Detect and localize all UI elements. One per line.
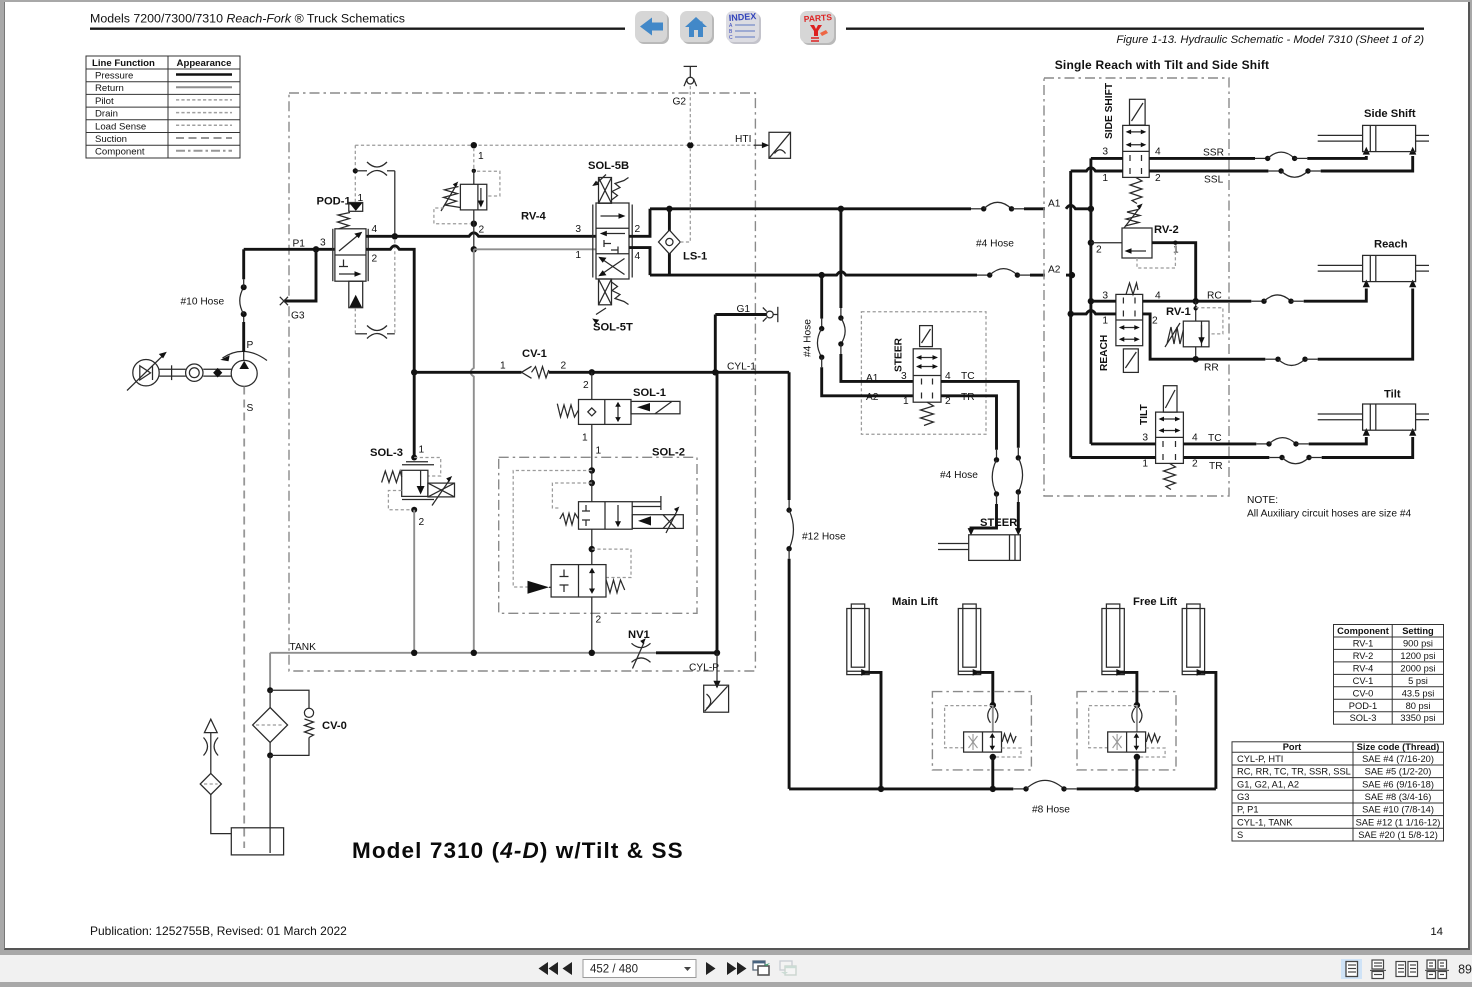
svg-text:3: 3 <box>320 238 326 249</box>
lift supply rail <box>789 780 1216 792</box>
svg-text:Appearance: Appearance <box>177 58 232 69</box>
legend table text <box>92 58 231 158</box>
POD-1 pilot line upper with orifice <box>353 145 395 236</box>
svg-text:NV1: NV1 <box>628 629 650 641</box>
svg-text:2: 2 <box>1152 316 1158 327</box>
svg-text:2000 psi: 2000 psi <box>1400 663 1435 673</box>
lift cylinder 2 <box>958 604 993 705</box>
svg-text:5 psi: 5 psi <box>1408 676 1428 686</box>
steer TR line <box>941 392 999 536</box>
main lift lowering valve <box>945 702 1021 789</box>
svg-text:RV-4: RV-4 <box>1353 663 1374 673</box>
SOL-2 lower valve <box>528 529 632 653</box>
svg-text:RV-1: RV-1 <box>1166 306 1191 318</box>
svg-text:SSL: SSL <box>1204 175 1224 186</box>
tilt port3 line <box>1091 442 1156 445</box>
svg-text:CV-1: CV-1 <box>1353 676 1374 686</box>
return line SOL-5 port1 <box>471 246 596 252</box>
legend drain sample <box>176 112 232 114</box>
svg-text:Side Shift: Side Shift <box>1364 108 1416 120</box>
tilt valve <box>1156 386 1184 490</box>
svg-text:CYL-1, TANK: CYL-1, TANK <box>1237 817 1293 827</box>
steer valve <box>866 326 951 426</box>
side shift port3 line <box>1091 157 1123 160</box>
home button <box>680 11 714 44</box>
component setting table text <box>1337 626 1435 723</box>
lift cylinder 1 <box>847 604 881 789</box>
svg-text:TC: TC <box>1208 433 1222 444</box>
svg-text:#12 Hose: #12 Hose <box>802 532 846 543</box>
svg-text:SAE #6 (9/16-18): SAE #6 (9/16-18) <box>1362 779 1434 789</box>
svg-text:A2: A2 <box>866 392 879 403</box>
svg-text:Line Function: Line Function <box>92 58 155 69</box>
pump shaft <box>203 368 231 378</box>
note text <box>1247 495 1412 520</box>
svg-text:Pressure: Pressure <box>95 71 133 82</box>
free lift label <box>1133 596 1177 608</box>
svg-text:SIDE SHIFT: SIDE SHIFT <box>1104 82 1115 139</box>
RC line <box>1143 280 1370 305</box>
hose label 4b <box>803 319 814 357</box>
two page layout icon <box>1396 962 1418 977</box>
svg-text:Return: Return <box>95 83 124 94</box>
svg-text:Tilt: Tilt <box>1384 389 1401 401</box>
svg-text:4: 4 <box>1155 147 1161 158</box>
steer A1 drop hose <box>838 209 913 382</box>
svg-text:S: S <box>247 403 254 414</box>
port size table text <box>1237 742 1440 840</box>
port labels POD-1 <box>372 224 378 265</box>
side shift valve <box>1123 99 1150 203</box>
svg-text:89: 89 <box>1458 963 1472 977</box>
auxiliary boundary box <box>1044 78 1229 496</box>
svg-text:Port: Port <box>1283 742 1302 752</box>
svg-text:1: 1 <box>1102 316 1108 327</box>
svg-text:SAE #8 (3/4-16): SAE #8 (3/4-16) <box>1365 792 1432 802</box>
svg-text:All Auxiliary circuit hoses: All Auxiliary circuit hoses are size #4 <box>1247 509 1412 520</box>
RV-2 relief valve <box>1091 204 1196 302</box>
header rule left <box>90 28 625 30</box>
next view icon (disabled) <box>780 961 796 975</box>
first page button <box>539 962 559 975</box>
SOL-5T label <box>593 322 633 334</box>
svg-text:Drain: Drain <box>95 109 118 120</box>
side shift port1 line <box>1071 168 1123 171</box>
svg-text:SOL-5B: SOL-5B <box>588 160 629 172</box>
two page continuous icon <box>1425 960 1449 979</box>
svg-text:P1: P1 <box>293 239 306 250</box>
svg-text:Models 7200/7300/7310 Reach-Fo: Models 7200/7300/7310 Reach-Fork ® Truck… <box>90 12 405 26</box>
legend return sample <box>176 86 232 88</box>
svg-text:3: 3 <box>575 224 581 235</box>
svg-text:POD-1: POD-1 <box>317 196 351 208</box>
svg-text:43.5 psi: 43.5 psi <box>1402 688 1435 698</box>
hose label 8 <box>1032 805 1070 816</box>
svg-text:1: 1 <box>1142 459 1148 470</box>
svg-text:REACH: REACH <box>1099 335 1110 371</box>
svg-text:2: 2 <box>372 254 378 265</box>
port size table <box>1232 742 1444 841</box>
POD-1 label <box>317 193 364 208</box>
svg-text:3: 3 <box>1102 147 1108 158</box>
last page button <box>727 962 747 975</box>
A2 label <box>1048 265 1061 276</box>
svg-text:1: 1 <box>1102 173 1108 184</box>
SOL-5 port labels <box>575 224 640 262</box>
SOL-5 port4 drop to A2 <box>629 248 650 276</box>
hose label 10 <box>181 297 225 308</box>
P1 pressure line <box>244 246 335 252</box>
SOL-5 spool valve <box>592 175 632 324</box>
page number <box>1430 926 1443 938</box>
SOL-3 valve <box>370 372 455 653</box>
svg-text:4: 4 <box>635 251 641 262</box>
legend suction sample <box>176 137 232 139</box>
svg-text:RR: RR <box>1204 363 1219 374</box>
A1 label <box>1048 199 1061 210</box>
svg-text:RV-2: RV-2 <box>1353 651 1374 661</box>
svg-text:P, P1: P, P1 <box>1237 805 1259 815</box>
document title <box>90 12 405 26</box>
SOL-2 upper valve <box>513 467 683 587</box>
legend component sample <box>176 150 232 152</box>
POD-1 port2 line to manifold <box>366 246 414 372</box>
side shift cylinder <box>1318 108 1429 152</box>
svg-text:2: 2 <box>561 361 567 372</box>
svg-text:Suction: Suction <box>95 134 127 145</box>
svg-text:A1: A1 <box>866 373 879 384</box>
svg-text:14: 14 <box>1430 926 1443 938</box>
legend load sense sample <box>176 124 232 126</box>
G2 test port <box>673 66 698 143</box>
SOL-1 valve <box>557 372 680 470</box>
SOL-2 label <box>596 446 685 459</box>
HTI output <box>735 132 791 158</box>
svg-text:1: 1 <box>582 433 588 444</box>
electric motor M <box>127 352 167 391</box>
lift cylinder 4 <box>1182 604 1216 789</box>
tilt port1 line <box>1071 456 1156 459</box>
svg-text:1200 psi: 1200 psi <box>1400 651 1435 661</box>
vertical A2 return rail <box>1069 171 1072 458</box>
svg-text:Load Sense: Load Sense <box>95 121 146 132</box>
svg-text:#4 Hose: #4 Hose <box>803 319 814 357</box>
model title <box>352 838 684 863</box>
svg-text:LS-1: LS-1 <box>683 251 707 263</box>
svg-text:2: 2 <box>1096 245 1102 256</box>
svg-text:Setting: Setting <box>1402 626 1434 636</box>
svg-text:Figure 1-13. Hydraulic Schema: Figure 1-13. Hydraulic Schematic - Model… <box>1116 34 1424 46</box>
svg-text:Publication: 1252755B, Revised: Publication: 1252755B, Revised: 01 March… <box>90 924 347 938</box>
svg-text:RV-4: RV-4 <box>521 211 546 223</box>
svg-text:Component: Component <box>1337 626 1389 636</box>
vertical pressure rail <box>1088 158 1094 444</box>
SSR line <box>1149 147 1370 161</box>
svg-text:#4 Hose: #4 Hose <box>940 470 978 481</box>
svg-text:SOL-3: SOL-3 <box>1350 713 1377 723</box>
A1 line <box>650 202 1094 212</box>
A2 line <box>650 269 1075 279</box>
svg-text:1: 1 <box>575 250 581 261</box>
svg-text:C: C <box>729 35 733 41</box>
svg-text:4: 4 <box>1192 433 1198 444</box>
reach valve <box>1116 283 1143 372</box>
svg-text:SOL-5T: SOL-5T <box>593 322 633 334</box>
LS-1 shuttle valve <box>659 209 708 275</box>
svg-text:1: 1 <box>903 396 909 407</box>
svg-text:TR: TR <box>961 392 975 403</box>
port S label <box>247 403 254 414</box>
reach port labels <box>1102 291 1161 327</box>
zoom percent <box>1458 963 1472 977</box>
back button <box>635 11 669 44</box>
svg-text:SOL-1: SOL-1 <box>633 387 666 399</box>
svg-text:S: S <box>1237 830 1243 840</box>
pressure line pump to P1 with hose <box>240 249 247 360</box>
svg-text:2: 2 <box>583 380 589 391</box>
figure caption <box>1116 34 1424 46</box>
P1 label <box>293 238 327 250</box>
REACH label rotated <box>1099 335 1110 371</box>
svg-text:Main Lift: Main Lift <box>892 596 938 608</box>
main lift label <box>892 596 938 608</box>
POD-1 valve <box>333 203 368 308</box>
previous view icon <box>753 961 770 975</box>
svg-text:PARTS: PARTS <box>803 12 832 24</box>
svg-text:A1: A1 <box>1048 199 1061 210</box>
svg-text:TR: TR <box>1209 461 1223 472</box>
steer A2 drop hose <box>817 275 913 396</box>
svg-text:A2: A2 <box>1048 265 1061 276</box>
port P label <box>247 340 254 351</box>
steer TC line <box>941 371 1023 536</box>
legend pressure sample <box>176 73 232 76</box>
svg-text:SOL-2: SOL-2 <box>652 447 685 459</box>
main pressure line POD-1 to SOL-5 <box>366 233 596 236</box>
svg-text:Single Reach with Tilt and: Single Reach with Tilt and Side Shift <box>1055 58 1270 72</box>
svg-text:INDEX: INDEX <box>728 11 756 23</box>
G1 test port <box>715 304 778 372</box>
SOL-5 port2 riser to A1 <box>629 209 650 237</box>
svg-text:2: 2 <box>1192 459 1198 470</box>
svg-text:3: 3 <box>1142 433 1148 444</box>
svg-text:4: 4 <box>372 224 378 235</box>
manifold component boundary box <box>289 93 755 671</box>
tilt port labels <box>1142 433 1198 470</box>
svg-text:SAE #20 (1 5/8-12): SAE #20 (1 5/8-12) <box>1358 830 1438 840</box>
svg-text:RV-1: RV-1 <box>1353 638 1374 648</box>
LS-1 pilot to HTI rail <box>680 148 690 242</box>
svg-text:80 psi: 80 psi <box>1406 701 1431 711</box>
hose label 4a <box>976 239 1014 250</box>
svg-text:Component: Component <box>95 147 145 158</box>
TR line <box>1183 428 1416 472</box>
lift cylinder 3 <box>1102 604 1137 705</box>
publication footer <box>90 924 347 938</box>
svg-text:Pilot: Pilot <box>95 96 114 107</box>
RV-4 relief valve <box>434 148 547 249</box>
svg-text:2: 2 <box>419 517 425 528</box>
svg-text:SSR: SSR <box>1203 148 1224 159</box>
hose line 12 down <box>786 372 846 789</box>
tank return rail <box>270 642 656 656</box>
TILT label rotated <box>1139 403 1150 425</box>
previous page button <box>563 962 573 975</box>
svg-text:CV-0: CV-0 <box>322 720 347 732</box>
header rule right <box>846 28 1424 30</box>
TC line <box>1183 428 1370 447</box>
svg-text:Free Lift: Free Lift <box>1133 596 1177 608</box>
CYL-P outlet <box>689 372 729 712</box>
svg-text:SAE #10 (7/8-14): SAE #10 (7/8-14) <box>1362 805 1434 815</box>
SSL line <box>1149 147 1416 186</box>
CV-0 check valve <box>270 690 347 755</box>
NV1 needle valve <box>628 629 720 669</box>
svg-text:CYL-1: CYL-1 <box>727 361 756 372</box>
svg-text:#10 Hose: #10 Hose <box>181 297 225 308</box>
legend pilot sample <box>176 99 232 101</box>
svg-text:RC, RR, TC, TR, SSR, SSL: RC, RR, TC, TR, SSR, SSL <box>1237 767 1351 777</box>
svg-text:POD-1: POD-1 <box>1349 701 1377 711</box>
svg-text:3: 3 <box>901 371 907 382</box>
svg-text:1: 1 <box>500 361 506 372</box>
page number box <box>583 960 696 978</box>
svg-text:#8 Hose: #8 Hose <box>1032 805 1070 816</box>
svg-text:Size code (Thread): Size code (Thread) <box>1357 742 1440 752</box>
svg-text:RC: RC <box>1207 291 1222 302</box>
G3 test port <box>280 249 316 321</box>
main lift lowering valve box <box>932 692 1031 770</box>
svg-text:Reach: Reach <box>1374 239 1408 251</box>
continuous layout icon <box>1370 960 1386 979</box>
return drop to tank <box>471 249 474 653</box>
svg-text:STEER: STEER <box>894 337 905 372</box>
svg-text:CYL-P, HTI: CYL-P, HTI <box>1237 754 1283 764</box>
svg-text:3350 psi: 3350 psi <box>1400 713 1435 723</box>
reservoir tank <box>231 828 283 855</box>
suction line <box>243 387 245 849</box>
svg-text:#4 Hose: #4 Hose <box>976 239 1014 250</box>
svg-text:TC: TC <box>961 371 975 382</box>
svg-text:STEER: STEER <box>980 517 1017 529</box>
RV-1 relief valve <box>1165 301 1223 359</box>
svg-text:TILT: TILT <box>1139 403 1150 425</box>
svg-text:CV-0: CV-0 <box>1353 688 1374 698</box>
svg-text:P: P <box>247 340 254 351</box>
svg-text:2: 2 <box>945 396 951 407</box>
svg-text:G3: G3 <box>1237 792 1249 802</box>
svg-text:1: 1 <box>478 151 484 162</box>
breather <box>200 719 231 833</box>
steer boundary box <box>861 312 986 434</box>
svg-text:SAE #12 (1 1/16-12): SAE #12 (1 1/16-12) <box>1356 817 1441 827</box>
tilt cylinder <box>1318 389 1429 431</box>
svg-text:CYL-P: CYL-P <box>689 663 719 674</box>
component setting table <box>1334 625 1444 725</box>
parts button <box>800 11 836 45</box>
SOL-2 boundary box <box>499 457 697 613</box>
reach cylinder <box>1318 239 1429 282</box>
single page layout icon (active) <box>1341 959 1362 979</box>
section heading <box>1055 58 1270 72</box>
RR line <box>1143 280 1417 374</box>
index button <box>726 11 761 44</box>
svg-text:2: 2 <box>596 615 602 626</box>
svg-text:G2: G2 <box>673 97 687 108</box>
svg-text:G1, G2, A1, A2: G1, G2, A1, A2 <box>1237 779 1299 789</box>
svg-text:Model 7310 (4-D) w/Tilt & SS: Model 7310 (4-D) w/Tilt & SS <box>352 838 684 863</box>
svg-text:452 / 480: 452 / 480 <box>590 964 638 976</box>
next page button <box>706 962 716 975</box>
svg-text:2: 2 <box>479 225 485 236</box>
pilot rail line <box>355 142 758 148</box>
svg-text:2: 2 <box>1155 173 1161 184</box>
svg-text:RV-2: RV-2 <box>1154 224 1179 236</box>
SOL-5B label <box>588 160 629 172</box>
svg-text:1: 1 <box>596 446 602 457</box>
side shift label rotated <box>1104 82 1115 139</box>
svg-text:SOL-3: SOL-3 <box>370 447 403 459</box>
svg-text:SAE #4 (7/16-20): SAE #4 (7/16-20) <box>1362 754 1434 764</box>
free lift lowering valve <box>1089 702 1165 789</box>
reach port3 line <box>1091 300 1116 303</box>
free lift lowering valve box <box>1077 692 1176 770</box>
side shift port labels <box>1102 147 1161 185</box>
svg-text:CV-1: CV-1 <box>522 348 547 360</box>
svg-text:HTI: HTI <box>735 134 751 145</box>
svg-text:900 psi: 900 psi <box>1403 638 1433 648</box>
junction main line <box>392 233 398 239</box>
return filter <box>253 653 288 853</box>
svg-text:SAE #5 (1/2-20): SAE #5 (1/2-20) <box>1365 767 1432 777</box>
CYL-1 line with CV-1 <box>411 348 789 378</box>
svg-text:TANK: TANK <box>290 642 317 653</box>
legend table frame <box>86 56 240 158</box>
svg-text:G3: G3 <box>291 311 305 322</box>
POD-1 pilot line lower with orifice <box>355 240 395 339</box>
svg-text:2: 2 <box>635 224 641 235</box>
hose label 4c <box>940 470 978 481</box>
reach port1 line <box>1068 310 1116 317</box>
coupler <box>186 364 203 381</box>
svg-text:NOTE:: NOTE: <box>1247 495 1278 506</box>
steer cylinder <box>938 517 1020 560</box>
svg-text:1: 1 <box>419 445 425 456</box>
motor shaft <box>159 365 186 380</box>
hydraulic pump <box>220 351 267 386</box>
